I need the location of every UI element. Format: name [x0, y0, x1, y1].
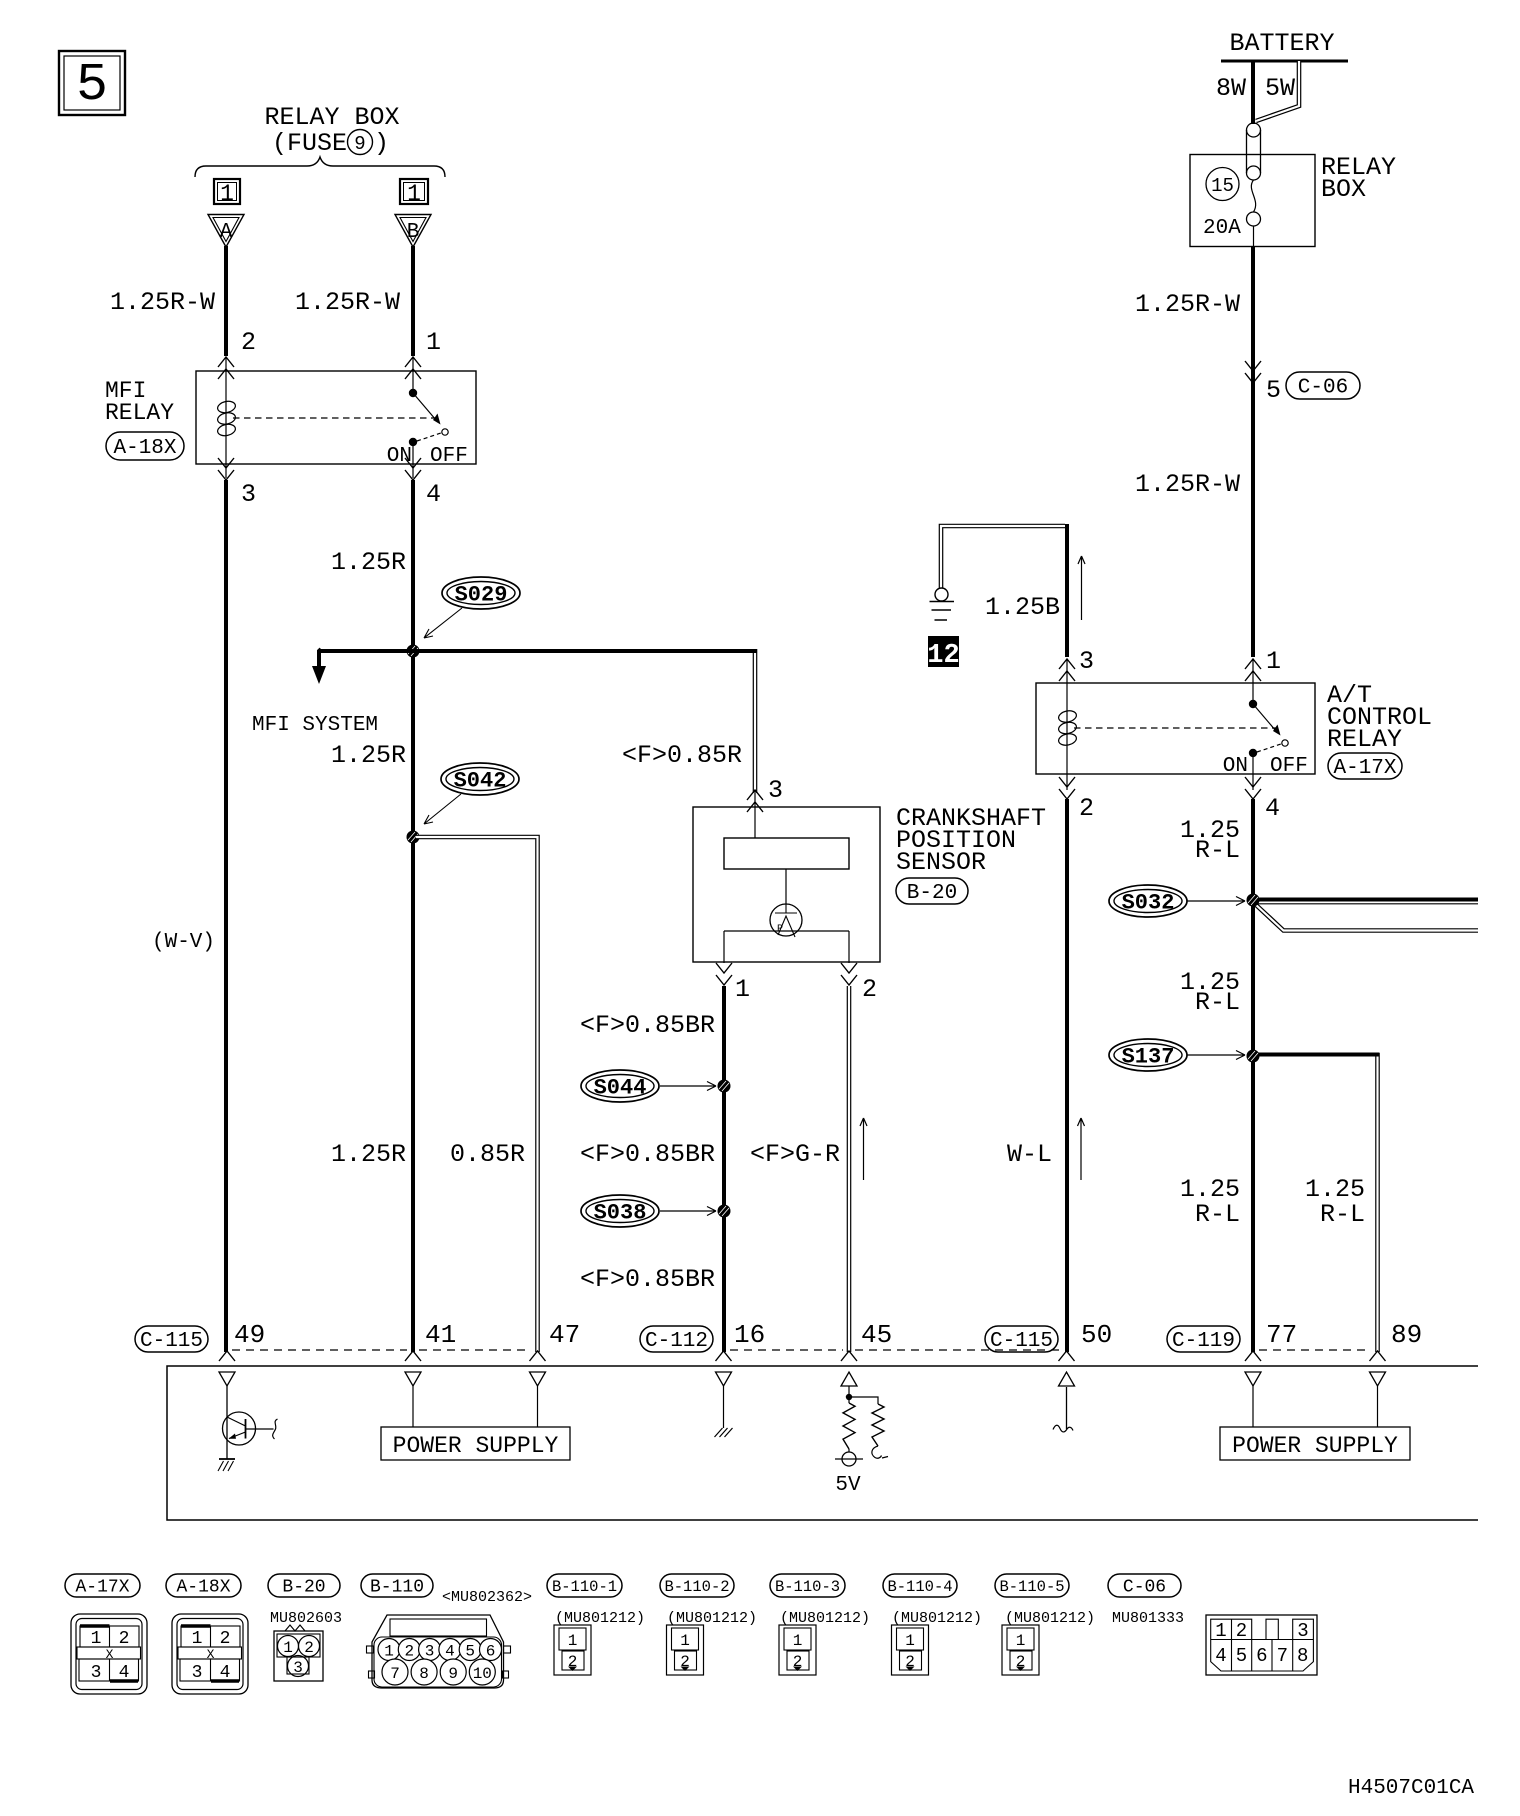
wire (F)0.85BR sensor pin1 to ECU pin 16 — [580, 986, 724, 1352]
connector ref C-06 (legend) — [1108, 1574, 1181, 1598]
connector ref A-17X (legend) — [65, 1574, 140, 1598]
svg-text:5V: 5V — [835, 1474, 861, 1497]
svg-text:2: 2 — [1236, 1620, 1247, 1642]
wire A (W-V) down to ECU pin 49 — [152, 480, 226, 1352]
svg-text:(FUSE: (FUSE — [272, 129, 347, 158]
svg-text:S038: S038 — [594, 1201, 647, 1226]
svg-text:A-17X: A-17X — [75, 1578, 129, 1598]
part number MU801212 (4) — [892, 1610, 982, 1627]
svg-text:4: 4 — [426, 480, 441, 509]
svg-text:RELAY: RELAY — [1327, 725, 1402, 754]
svg-text:ON: ON — [1223, 755, 1248, 778]
connector ref A-18X — [106, 432, 184, 460]
svg-text:1: 1 — [1266, 647, 1281, 676]
connector tab A (fuse 1) — [208, 179, 244, 247]
connector tab B (fuse 1) — [395, 179, 431, 247]
svg-text:2: 2 — [119, 1629, 130, 1649]
svg-text:A-18X: A-18X — [113, 437, 176, 460]
part number MU801212 (3) — [780, 1610, 870, 1627]
svg-text:C-112: C-112 — [645, 1330, 708, 1353]
svg-text:A-17X: A-17X — [1333, 757, 1396, 780]
svg-text:20A: 20A — [1203, 217, 1241, 240]
svg-text:3: 3 — [425, 1643, 435, 1661]
connector chevrons at ECU — [219, 1351, 1386, 1361]
splice S042 — [424, 763, 519, 824]
svg-text:RELAY: RELAY — [105, 400, 174, 426]
label MFI RELAY — [105, 378, 174, 426]
svg-text:3: 3 — [192, 1663, 203, 1683]
splice S038 — [581, 1195, 716, 1227]
svg-text:<MU802362>: <MU802362> — [442, 1589, 532, 1606]
A/T relay dashed actuator link — [1074, 727, 1276, 729]
junction S032 — [1247, 894, 1479, 931]
MFI relay box A-18X — [196, 357, 476, 464]
pin numbers along ECU — [234, 1320, 1422, 1350]
connector ref B-110-3 (legend) — [770, 1574, 845, 1597]
svg-text:H4507C01CA: H4507C01CA — [1348, 1777, 1474, 1800]
svg-text:B-110-1: B-110-1 — [552, 1578, 617, 1596]
svg-text:10: 10 — [473, 1665, 492, 1683]
ECU ground at pin 16 — [715, 1386, 733, 1437]
A/T control relay coil feed wire — [1065, 524, 1069, 657]
splice S137 — [1109, 1039, 1245, 1071]
svg-text:1.25R-W: 1.25R-W — [1135, 290, 1240, 319]
svg-text:1.25R-W: 1.25R-W — [295, 288, 400, 317]
svg-text:1: 1 — [91, 1629, 102, 1649]
svg-text:5: 5 — [1266, 376, 1281, 405]
ECU pin triangles — [219, 1372, 1386, 1386]
svg-text:R-L: R-L — [1195, 836, 1240, 865]
svg-text:1: 1 — [905, 1632, 915, 1650]
svg-text:0.85R: 0.85R — [450, 1140, 525, 1169]
svg-text:2: 2 — [404, 1643, 414, 1661]
svg-text:B-110-2: B-110-2 — [664, 1578, 729, 1596]
connector ref A-18X (legend) — [166, 1574, 241, 1598]
connector ref C-112 — [640, 1326, 713, 1353]
ECU box — [167, 1366, 1478, 1520]
connector ref C-115 (right) — [985, 1326, 1058, 1353]
connector drawing C-06 — [1206, 1615, 1317, 1675]
svg-text:C-06: C-06 — [1298, 377, 1348, 400]
wire A 1.25R-W from tab A to MFI relay pin 2 — [110, 246, 256, 357]
POWER SUPPLY box (right) — [1220, 1386, 1410, 1460]
connector ref C-119 — [1167, 1326, 1240, 1353]
5W branch lead — [1256, 61, 1299, 121]
dashed connector line — [232, 1349, 1371, 1351]
A/T relay coil — [1058, 659, 1078, 790]
svg-text:2: 2 — [220, 1629, 231, 1649]
svg-text:8: 8 — [419, 1665, 429, 1683]
svg-text:S032: S032 — [1122, 891, 1175, 916]
battery main lead — [1251, 61, 1255, 124]
brace under relay box label — [195, 157, 445, 177]
svg-text:SENSOR: SENSOR — [896, 848, 986, 877]
connector drawing B-110-4 — [892, 1625, 929, 1675]
svg-text:1.25R: 1.25R — [331, 548, 406, 577]
svg-text:RELAY BOX: RELAY BOX — [264, 103, 399, 132]
current arrow on 1.25B wire — [1078, 556, 1085, 620]
svg-text:1: 1 — [407, 181, 421, 207]
svg-text:B-110-3: B-110-3 — [775, 1578, 840, 1596]
svg-text:<F>G-R: <F>G-R — [750, 1140, 840, 1169]
MFI relay switch — [387, 357, 468, 478]
part number MU802362 — [442, 1589, 532, 1606]
junction S137 and branch to pin 89 — [1247, 1050, 1380, 1353]
splice S032 — [1109, 885, 1245, 917]
svg-text:<F>0.85BR: <F>0.85BR — [580, 1140, 715, 1169]
svg-text:S137: S137 — [1122, 1045, 1175, 1070]
svg-text:S029: S029 — [455, 583, 508, 608]
A/T relay bottom exits — [1059, 777, 1280, 823]
wire 1.25B ground branch — [941, 526, 1065, 622]
wire (F)G-R sensor pin2 to ECU pin 45 — [750, 986, 849, 1352]
svg-text:4: 4 — [220, 1663, 231, 1683]
svg-text:41: 41 — [425, 1320, 456, 1350]
svg-text:1: 1 — [735, 975, 750, 1004]
svg-text:6: 6 — [1256, 1645, 1267, 1667]
connector drawing B-110-1 — [554, 1625, 591, 1675]
sensor pin 1 and 2 exits — [716, 963, 877, 1004]
svg-text:W-L: W-L — [1007, 1140, 1052, 1169]
svg-text:1: 1 — [426, 328, 441, 357]
MFI relay coil — [217, 357, 237, 478]
svg-text:1: 1 — [384, 1643, 394, 1661]
connector drawing B-110-3 — [779, 1625, 816, 1675]
svg-text:1: 1 — [283, 1639, 293, 1657]
svg-text:6: 6 — [486, 1643, 496, 1661]
svg-text:4: 4 — [1215, 1645, 1226, 1667]
svg-text:BATTERY: BATTERY — [1229, 29, 1334, 58]
connector drawing B-20 — [274, 1625, 323, 1681]
connector drawing B-110-5 — [1002, 1625, 1039, 1675]
connector ref B-110 (legend) — [361, 1574, 433, 1598]
svg-text:B: B — [407, 221, 420, 244]
connector ref B-20 — [896, 878, 968, 905]
svg-text:47: 47 — [549, 1320, 580, 1350]
A/T relay switch — [1223, 659, 1308, 790]
svg-text:S042: S042 — [454, 769, 507, 794]
svg-text:50: 50 — [1081, 1320, 1112, 1350]
svg-text:B-20: B-20 — [282, 1578, 325, 1598]
svg-text:16: 16 — [734, 1320, 765, 1350]
part number MU802603 — [270, 1610, 342, 1627]
connector ref C-115 (left) — [135, 1326, 208, 1353]
svg-text:1.25B: 1.25B — [985, 593, 1060, 622]
svg-text:X: X — [207, 1647, 215, 1662]
splice S029 — [424, 577, 520, 638]
wire 1.25R-W battery to A/T relay pin 1 — [1135, 247, 1253, 657]
svg-text:MU802603: MU802603 — [270, 1610, 342, 1627]
svg-text:1: 1 — [793, 1632, 803, 1650]
wire W-L A/T relay pin2 to ECU pin 50 — [1007, 799, 1067, 1352]
svg-text:9: 9 — [354, 133, 365, 155]
svg-text:2: 2 — [862, 975, 877, 1004]
MFI SYSTEM branch arrow — [252, 649, 378, 737]
connector drawing A-17X — [71, 1614, 147, 1694]
A/T control relay box A-17X — [1036, 647, 1315, 774]
svg-text:2: 2 — [1079, 794, 1094, 823]
svg-text:OFF: OFF — [430, 445, 468, 468]
sensor labels — [896, 804, 1046, 877]
svg-text:5: 5 — [1236, 1645, 1247, 1667]
svg-text:1: 1 — [192, 1629, 203, 1649]
svg-text:B-110-4: B-110-4 — [887, 1578, 952, 1596]
svg-text:89: 89 — [1391, 1320, 1422, 1350]
svg-text:1: 1 — [1215, 1620, 1226, 1642]
svg-text:P: P — [777, 924, 783, 935]
splice S044 — [581, 1070, 716, 1102]
ground symbol — [930, 588, 955, 620]
wire B 1.25R segment — [331, 480, 413, 1352]
wire B 1.25R-W from tab B to MFI relay pin 1 — [295, 246, 441, 357]
svg-text:3: 3 — [241, 480, 256, 509]
svg-text:8W: 8W — [1216, 74, 1246, 103]
svg-text:S044: S044 — [594, 1076, 647, 1101]
svg-text:X: X — [106, 1647, 114, 1662]
svg-text:5W: 5W — [1265, 74, 1295, 103]
relay box (battery) — [1190, 153, 1396, 247]
svg-text:7: 7 — [1277, 1645, 1288, 1667]
svg-text:1: 1 — [220, 181, 234, 207]
junction S042 — [407, 831, 420, 844]
svg-text:B-110: B-110 — [370, 1578, 424, 1598]
document number — [1348, 1777, 1474, 1800]
svg-text:2: 2 — [241, 328, 256, 357]
svg-text:B-110-5: B-110-5 — [999, 1578, 1064, 1596]
label RELAY BOX (FUSE 9) — [264, 103, 399, 158]
svg-text:POWER SUPPLY: POWER SUPPLY — [393, 1433, 559, 1459]
svg-text:9: 9 — [448, 1665, 458, 1683]
ECU 5V pull-up at pin 45 — [835, 1386, 888, 1497]
svg-text:1.25R: 1.25R — [331, 741, 406, 770]
page number box 5 — [59, 51, 125, 115]
svg-text:5: 5 — [465, 1643, 475, 1661]
svg-text:3: 3 — [1297, 1620, 1308, 1642]
svg-text:R-L: R-L — [1195, 1200, 1240, 1229]
label A/T CONTROL RELAY — [1327, 681, 1432, 754]
svg-text:15: 15 — [1211, 175, 1234, 197]
svg-text:A-18X: A-18X — [176, 1578, 230, 1598]
svg-text:5: 5 — [76, 55, 108, 115]
svg-text:MU801333: MU801333 — [1112, 1610, 1184, 1627]
svg-text:A: A — [220, 221, 233, 244]
svg-text:1: 1 — [680, 1632, 690, 1650]
svg-text:MFI SYSTEM: MFI SYSTEM — [252, 714, 378, 737]
connector drawing B-110-2 — [667, 1625, 704, 1675]
label 1.25R below S029 — [331, 741, 406, 770]
connector ref B-20 (legend) — [268, 1574, 340, 1598]
part number MU801333 — [1112, 1610, 1184, 1627]
svg-text:1.25R: 1.25R — [331, 1140, 406, 1169]
part number MU801212 (5) — [1005, 1610, 1095, 1627]
svg-text:C-115: C-115 — [140, 1330, 203, 1353]
svg-text:POWER SUPPLY: POWER SUPPLY — [1232, 1433, 1398, 1459]
svg-text:ON: ON — [387, 445, 412, 468]
page ref 12 black box — [927, 636, 959, 671]
POWER SUPPLY box (left) — [381, 1386, 570, 1460]
ECU transistor at pin 49 — [218, 1386, 278, 1471]
svg-text:12: 12 — [927, 641, 959, 671]
connector ref B-110-4 (legend) — [883, 1574, 957, 1597]
connector ref A-17X — [1328, 753, 1402, 780]
svg-text:OFF: OFF — [1270, 755, 1308, 778]
current arrow at pin 50 wire — [1078, 1118, 1085, 1180]
svg-text:4: 4 — [1265, 794, 1280, 823]
MFI relay bottom pin exits — [218, 458, 441, 509]
svg-text:7: 7 — [390, 1665, 400, 1683]
wire to crank sensor pin 3 (F)0.85R — [321, 649, 757, 793]
svg-text:<F>0.85BR: <F>0.85BR — [580, 1265, 715, 1294]
connector ref B-110-2 (legend) — [660, 1574, 734, 1597]
svg-text:4: 4 — [445, 1643, 455, 1661]
svg-text:1.25R-W: 1.25R-W — [110, 288, 215, 317]
crankshaft position sensor box B-20 — [693, 790, 880, 963]
current arrow at pin 45 wire — [860, 1118, 867, 1180]
svg-text:<F>0.85BR: <F>0.85BR — [580, 1011, 715, 1040]
svg-text:BOX: BOX — [1321, 175, 1366, 204]
fuse 15 20A — [1203, 168, 1261, 248]
svg-text:R-L: R-L — [1195, 988, 1240, 1017]
part number MU801212 (2) — [667, 1610, 757, 1627]
svg-text:(W-V): (W-V) — [152, 931, 215, 954]
svg-text:B-20: B-20 — [907, 882, 957, 905]
svg-text:4: 4 — [119, 1663, 130, 1683]
svg-text:1: 1 — [568, 1632, 578, 1650]
svg-text:C-06: C-06 — [1123, 1578, 1166, 1598]
svg-text:<F>0.85R: <F>0.85R — [622, 741, 742, 770]
connector drawing B-110 — [367, 1615, 511, 1688]
branch 0.85R to ECU pin 47 — [416, 837, 538, 1352]
connector drawing A-18X — [172, 1614, 248, 1694]
svg-text:8: 8 — [1297, 1645, 1308, 1667]
svg-text:): ) — [374, 129, 389, 158]
svg-text:77: 77 — [1266, 1320, 1297, 1350]
junction S044 — [718, 1080, 731, 1093]
ECU input symbol at pin 50 — [1053, 1387, 1073, 1432]
fusible link — [1247, 123, 1261, 180]
svg-text:45: 45 — [861, 1320, 892, 1350]
svg-text:3: 3 — [768, 776, 783, 805]
svg-text:2: 2 — [304, 1639, 314, 1657]
junction S029 — [407, 645, 420, 658]
part number MU801212 (1) — [555, 1610, 645, 1627]
svg-text:3: 3 — [1079, 647, 1094, 676]
svg-text:3: 3 — [91, 1663, 102, 1683]
connector ref B-110-1 (legend) — [547, 1574, 622, 1597]
pass-through connector C-06 pin 5 — [1245, 361, 1360, 405]
svg-text:3: 3 — [293, 1659, 303, 1677]
junction S038 — [718, 1205, 731, 1218]
labels 1.25R / 0.85R above ECU — [331, 1140, 525, 1169]
svg-text:1: 1 — [1016, 1632, 1026, 1650]
wire 1.25R-L A/T relay pin4 to ECU pin 77 — [1180, 799, 1365, 1352]
svg-text:C-119: C-119 — [1172, 1330, 1235, 1353]
crank sensor pin 3 entry — [747, 776, 783, 812]
MFI relay dashed actuator link — [233, 417, 436, 419]
svg-text:49: 49 — [234, 1320, 265, 1350]
svg-text:R-L: R-L — [1320, 1200, 1365, 1229]
battery — [1216, 29, 1348, 103]
svg-text:1.25R-W: 1.25R-W — [1135, 470, 1240, 499]
connector ref B-110-5 (legend) — [995, 1574, 1069, 1597]
